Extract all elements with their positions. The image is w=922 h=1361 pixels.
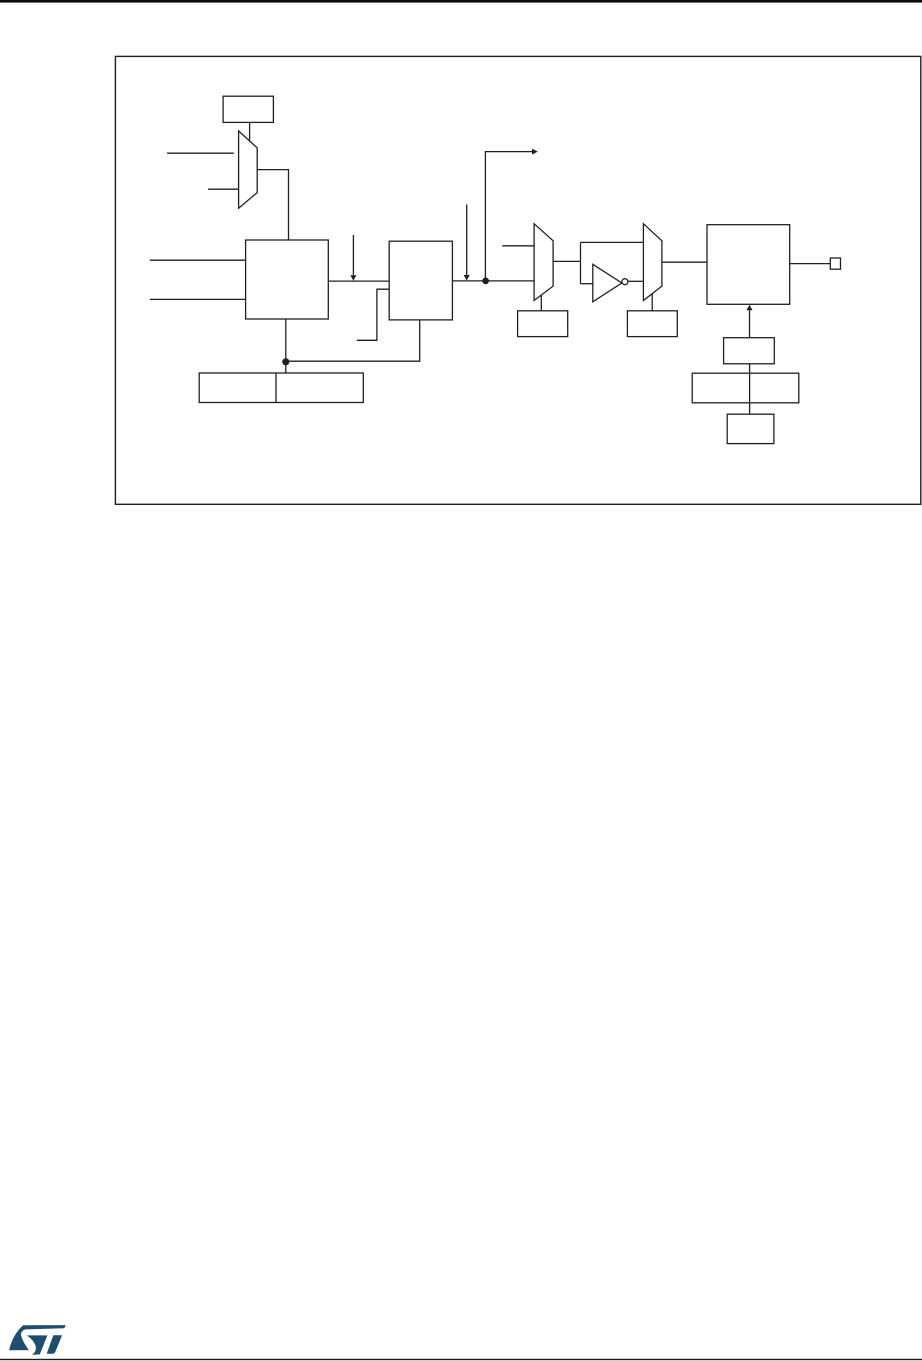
ST logo xyxy=(9,1325,66,1355)
register B5 xyxy=(724,338,775,364)
wire M1 input 2 xyxy=(208,188,239,190)
register B7 xyxy=(727,414,774,443)
wire/arrow J2 up and right xyxy=(485,149,537,281)
wire M3 to register B4 xyxy=(651,294,653,311)
wire into inverter xyxy=(581,283,593,285)
wire clock staircase xyxy=(357,289,389,340)
wire B1 to mux M1 xyxy=(249,122,251,141)
wire U4 output to pad xyxy=(790,263,831,265)
wire U1 bottom to register B2 xyxy=(285,319,287,373)
register B4 xyxy=(627,311,677,337)
block U2 xyxy=(389,241,452,320)
wire M2 to register B3 xyxy=(540,295,542,311)
register B3 xyxy=(518,311,568,337)
wire U1 input a xyxy=(150,259,246,261)
arrow A1 down xyxy=(350,235,356,281)
wire bypass to M3 xyxy=(581,241,644,243)
wire M3 output to U4 xyxy=(662,261,707,263)
inverter U3 xyxy=(593,264,628,302)
wire U2 bottom to node J1 xyxy=(286,320,420,361)
block U1 xyxy=(246,240,329,319)
wire M2 select xyxy=(502,245,534,247)
register B2 xyxy=(199,373,363,403)
node J1 xyxy=(282,358,289,365)
node J2 xyxy=(482,278,489,285)
wire B5 to B7 xyxy=(749,364,751,414)
wire M1 input 1 xyxy=(167,152,234,154)
wire node vertical xyxy=(580,242,582,283)
arrow A2 down xyxy=(464,204,470,280)
wire inverter to M3 xyxy=(628,280,644,282)
mux M2 xyxy=(534,224,553,301)
wire U1 to U2 xyxy=(328,280,389,282)
pin PAD xyxy=(830,258,840,269)
block U4 xyxy=(707,225,790,305)
register B6 xyxy=(692,373,799,403)
wire U1 input b xyxy=(150,298,246,300)
wire U2 to mux M2 xyxy=(452,280,534,282)
wire M1 output to U1 xyxy=(257,170,288,240)
mux M1 xyxy=(239,131,258,208)
arrow A3 up into U4 xyxy=(746,305,752,338)
wire M2 output to node xyxy=(553,260,580,262)
register B1 xyxy=(223,96,273,122)
mux M3 xyxy=(643,224,662,301)
